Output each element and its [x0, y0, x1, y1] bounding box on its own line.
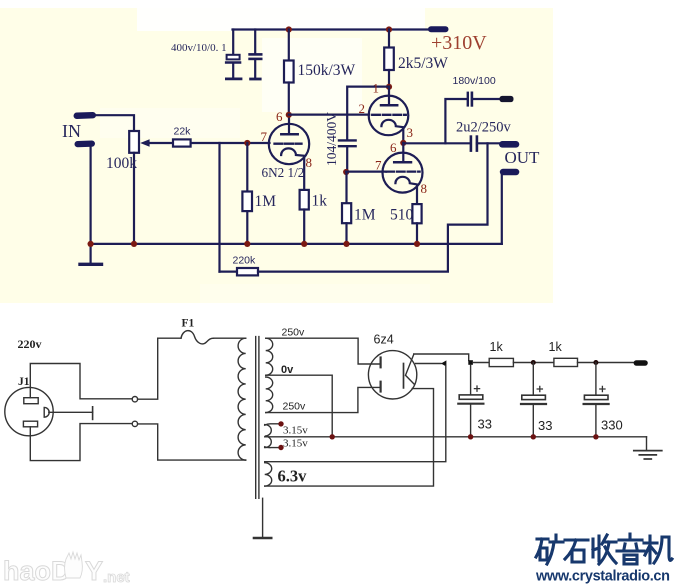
junction: bus/1M2 — [343, 241, 349, 247]
svg-text:6.3v: 6.3v — [278, 467, 308, 486]
junction: rail/C6 — [531, 360, 536, 365]
yellow background of preamp schematic — [0, 8, 553, 303]
6z4 plate 1 — [380, 358, 382, 368]
terminal: B+ output — [634, 360, 648, 366]
wire: cathode node to 2u2 coupling cap — [403, 142, 470, 144]
junction: bus / 2k5 — [386, 26, 392, 32]
svg-text:100k: 100k — [106, 155, 137, 172]
terminal: 180v tap — [500, 96, 514, 102]
6z4 cathode bar — [403, 364, 405, 388]
capacitor C1a (electrolytic 10uF/400v) — [232, 30, 234, 55]
wire: OUT lower to ground bus — [501, 175, 503, 244]
svg-text:2u2/250v: 2u2/250v — [456, 120, 512, 136]
rectifier tube 6z4 envelope — [368, 351, 416, 399]
terminal: +310V supply — [428, 26, 449, 32]
tube V1 plate — [281, 133, 297, 136]
arrow: B+ direction — [416, 363, 442, 365]
resistor R4 1M (grid leak V1) — [246, 143, 248, 192]
svg-text:6z4: 6z4 — [374, 333, 394, 347]
terminal dot 3.15v bottom — [278, 445, 283, 450]
svg-text:IN: IN — [62, 121, 81, 141]
wire: earth pin stub — [49, 411, 93, 413]
capacitor C5 33uF — [470, 365, 472, 395]
T1 secondary 250v lower winding — [266, 377, 273, 413]
svg-text:250v: 250v — [283, 401, 307, 413]
svg-text:2k5/3W: 2k5/3W — [398, 55, 448, 72]
junction: V3 grid node — [343, 169, 349, 175]
resistor R7 510 (cathode V3) — [412, 204, 421, 223]
resistor R1 150k/3W — [288, 30, 290, 61]
tube V3 grid (dashed) — [386, 170, 419, 172]
svg-text:1M: 1M — [354, 207, 376, 224]
svg-text:J1: J1 — [18, 376, 30, 388]
svg-text:haoD: haoD — [3, 556, 71, 586]
wiper arrow into pot — [149, 142, 174, 144]
svg-text:220k: 220k — [233, 255, 257, 267]
svg-text:1: 1 — [373, 81, 380, 96]
wire: grid node down to 220k row — [218, 143, 220, 272]
svg-text:0v: 0v — [281, 364, 294, 376]
svg-text:150k/3W: 150k/3W — [298, 62, 356, 79]
junction: C5/ground — [468, 434, 473, 439]
T1 secondary 250v upper winding — [266, 338, 273, 375]
capacitor C4 180v/100 — [467, 93, 469, 106]
junction: 2k5 / tube V2 plate node — [386, 84, 392, 90]
wire: 3.15v bottom lead — [265, 446, 279, 449]
svg-text:F1: F1 — [182, 318, 195, 330]
svg-text:8: 8 — [421, 181, 428, 196]
svg-text:7: 7 — [261, 129, 268, 144]
junction: rail/C7 — [593, 360, 598, 365]
svg-text:180v/100: 180v/100 — [453, 75, 496, 87]
junction: V1 plate node — [286, 112, 292, 118]
resistor R10 1k — [554, 358, 578, 366]
tube V2 grid (dashed) — [372, 114, 406, 116]
tube V1 cathode — [281, 148, 304, 189]
svg-text:7: 7 — [375, 158, 382, 173]
resistor R8 220k feedback — [220, 271, 238, 273]
tube V2 envelope — [369, 96, 409, 136]
T1 secondary 6.3v winding — [265, 463, 272, 486]
resistor R5 1k (cathode V1) — [300, 190, 309, 210]
wire: PSU ground rail — [265, 436, 647, 438]
ground: earth symbol — [646, 437, 648, 450]
svg-text:6N2 1/2: 6N2 1/2 — [262, 165, 305, 180]
wire: 3.15v top lead — [265, 424, 279, 425]
junction: V2 cathode / V3 plate node — [400, 140, 406, 146]
junction: bus/1k — [301, 241, 307, 247]
ground: preamp ground stub — [89, 244, 91, 263]
resistor R3 22k — [173, 139, 191, 146]
svg-text:3.15v: 3.15v — [283, 438, 308, 450]
tube V2 cathode — [381, 120, 403, 143]
tube V1 grid (dashed) — [275, 143, 302, 145]
svg-text:6: 6 — [390, 140, 397, 155]
capacitor C3 2u2/250v — [470, 137, 473, 151]
junction: C7/ground — [593, 434, 598, 439]
svg-text:Y: Y — [85, 556, 103, 586]
junction: bus/pot — [131, 241, 137, 247]
svg-text:33: 33 — [538, 418, 552, 433]
svg-text:510: 510 — [390, 207, 414, 224]
junction: grid node / 1M — [244, 140, 250, 146]
resistor R6 1M (grid leak V3) — [345, 172, 347, 203]
svg-text:33: 33 — [478, 417, 492, 432]
fuse F1 — [158, 337, 181, 339]
tube V3 envelope — [383, 153, 423, 193]
wire: grid node to V3 grid — [346, 171, 386, 173]
J1 earth pin (D shape) — [44, 407, 49, 417]
wire: arrow down to 6.3v top lead — [265, 366, 446, 462]
ground: transformer core — [262, 498, 264, 537]
wire: filament bottom to 6.3v bottom lead — [265, 389, 434, 487]
resistor R2 2k5/3W — [388, 30, 390, 48]
terminal: OUT lower — [500, 169, 520, 175]
wire: 104 cap top branch — [347, 87, 389, 140]
wire: neutral from plug to switch — [30, 424, 132, 461]
svg-text:220v: 220v — [18, 337, 42, 351]
svg-text:22k: 22k — [174, 126, 192, 138]
wire: V1 plate to V2 grid — [289, 113, 369, 115]
wire: 250v upper lead to rectifier plate 1 — [266, 338, 381, 364]
junction: bus/510 — [414, 241, 420, 247]
svg-text:1M: 1M — [255, 193, 277, 210]
svg-text:330: 330 — [601, 418, 623, 433]
svg-text:6: 6 — [276, 109, 283, 124]
junction: C6/ground — [531, 434, 536, 439]
connector J1 mains plug body — [5, 387, 53, 435]
wire: +310V top bus — [233, 28, 429, 30]
switch contact upper — [132, 397, 137, 402]
svg-text:8: 8 — [306, 155, 313, 170]
wire: IN lower down to ground bus — [89, 147, 91, 244]
watermark 矿石收音机 (drawn strokes) — [536, 534, 672, 564]
wire: cathode top to B+ junction — [414, 354, 469, 360]
J1 pin upper — [24, 398, 38, 404]
svg-text:1k: 1k — [490, 340, 504, 354]
svg-text:1k: 1k — [312, 193, 328, 210]
svg-text:2: 2 — [359, 101, 366, 116]
transformer T1 primary winding — [238, 338, 246, 460]
potentiometer 100k — [129, 131, 139, 153]
resistor R9 1k — [489, 358, 513, 366]
junction: bus / 150k — [286, 26, 292, 32]
svg-text:400v/10/0. 1: 400v/10/0. 1 — [171, 42, 227, 54]
tube V2 plate — [381, 104, 397, 107]
wire: switch to fuse — [138, 338, 158, 399]
wire: IN upper to pot top — [96, 115, 134, 131]
svg-text:www.crystalradio.cn: www.crystalradio.cn — [535, 569, 670, 585]
svg-text:.net: .net — [103, 569, 130, 586]
capacitor C1b (0.1uF) — [254, 30, 256, 54]
switch contact lower — [132, 421, 137, 426]
terminal: OUT upper — [499, 141, 519, 148]
junction: bus/1M — [244, 241, 250, 247]
watermark haoDY.net (embossed white) — [3, 552, 130, 586]
wire: 180v branch — [445, 99, 467, 143]
wire: 250v lower lead to rectifier plate 2 — [266, 387, 381, 412]
svg-text:104/400V: 104/400V — [324, 112, 339, 166]
capacitor C6 33uF — [532, 363, 534, 396]
capacitor C2 104/400V — [339, 139, 356, 141]
wire: B+ rail — [473, 362, 489, 364]
wire: main ground bus — [91, 243, 502, 245]
wire: 22k to V1 grid — [191, 142, 270, 144]
junction: 0v/heater center — [330, 434, 335, 439]
svg-text:1k: 1k — [549, 340, 563, 354]
tube V1 6N2 1/2 envelope — [269, 124, 309, 164]
wire: live from plug to switch — [30, 364, 132, 399]
svg-text:+310V: +310V — [431, 32, 487, 54]
terminal dot 3.15v top — [278, 421, 283, 426]
transformer T1 core — [255, 337, 257, 499]
svg-text:3.15v: 3.15v — [283, 425, 308, 437]
svg-text:250v: 250v — [282, 327, 306, 339]
terminal: IN lower — [74, 140, 95, 147]
svg-text:3: 3 — [407, 125, 414, 140]
T1 secondary 3.15v winding — [265, 425, 272, 448]
tube V3 cathode — [395, 177, 417, 204]
junction: bus/IN — [88, 241, 94, 247]
wire: switch to primary bottom — [138, 424, 246, 460]
svg-text:OUT: OUT — [505, 148, 541, 167]
tube V3 plate — [394, 161, 411, 164]
capacitor C7 330uF — [595, 363, 597, 396]
J1 pin lower — [23, 421, 37, 427]
wire: 0v tap — [266, 375, 333, 437]
terminal: IN upper — [73, 112, 96, 119]
junction square: B+ node — [468, 360, 473, 365]
6z4 filament V — [406, 355, 415, 385]
6z4 plate 2 — [380, 382, 382, 392]
